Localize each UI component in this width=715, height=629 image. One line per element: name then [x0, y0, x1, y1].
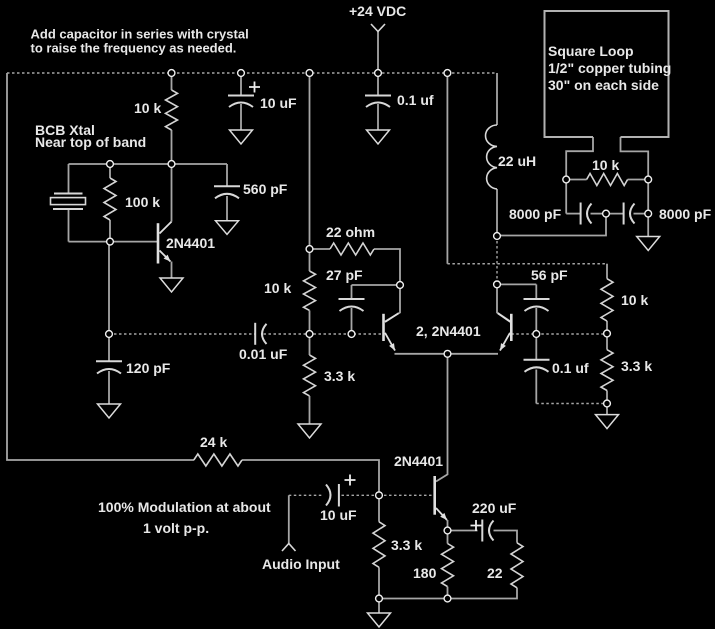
svg-text:100 k: 100 k [125, 194, 160, 210]
svg-text:2N4401: 2N4401 [166, 235, 215, 251]
svg-text:27 pF: 27 pF [326, 267, 363, 283]
svg-text:8000 pF: 8000 pF [509, 206, 562, 222]
svg-text:Near top of band: Near top of band [35, 134, 146, 150]
svg-text:2N4401: 2N4401 [394, 453, 443, 469]
svg-text:180: 180 [413, 565, 437, 581]
svg-text:Square Loop: Square Loop [548, 43, 634, 59]
svg-text:30" on each side: 30" on each side [548, 77, 659, 93]
svg-text:3.3 k: 3.3 k [391, 537, 422, 553]
svg-text:to raise the frequency as need: to raise the frequency as needed. [31, 41, 237, 56]
svg-text:24 k: 24 k [200, 434, 227, 450]
svg-text:+24 VDC: +24 VDC [349, 3, 406, 19]
svg-text:1/2" copper tubing: 1/2" copper tubing [548, 60, 671, 76]
svg-text:3.3 k: 3.3 k [324, 368, 355, 384]
svg-text:10 k: 10 k [621, 292, 648, 308]
svg-text:220 uF: 220 uF [472, 500, 517, 516]
svg-text:0.01 uF: 0.01 uF [239, 346, 288, 362]
svg-text:10 uF: 10 uF [260, 95, 297, 111]
svg-text:56 pF: 56 pF [531, 267, 568, 283]
svg-text:3.3 k: 3.3 k [621, 358, 652, 374]
svg-text:1 volt p-p.: 1 volt p-p. [143, 520, 209, 536]
svg-text:2, 2N4401: 2, 2N4401 [416, 323, 481, 339]
svg-text:22: 22 [487, 565, 503, 581]
svg-text:22 uH: 22 uH [498, 153, 536, 169]
svg-text:100% Modulation at about: 100% Modulation at about [98, 499, 271, 515]
svg-text:10 uF: 10 uF [320, 507, 357, 523]
svg-text:10 k: 10 k [592, 157, 619, 173]
svg-text:560 pF: 560 pF [243, 181, 288, 197]
svg-text:10 k: 10 k [134, 100, 161, 116]
svg-text:Audio Input: Audio Input [262, 556, 340, 572]
svg-text:0.1 uf: 0.1 uf [552, 360, 589, 376]
svg-text:10 k: 10 k [264, 280, 291, 296]
svg-text:Add capacitor in series with c: Add capacitor in series with crystal [31, 27, 249, 42]
svg-text:120 pF: 120 pF [126, 360, 171, 376]
svg-text:8000 pF: 8000 pF [659, 206, 712, 222]
svg-text:22 ohm: 22 ohm [326, 224, 375, 240]
svg-text:0.1 uf: 0.1 uf [397, 92, 434, 108]
